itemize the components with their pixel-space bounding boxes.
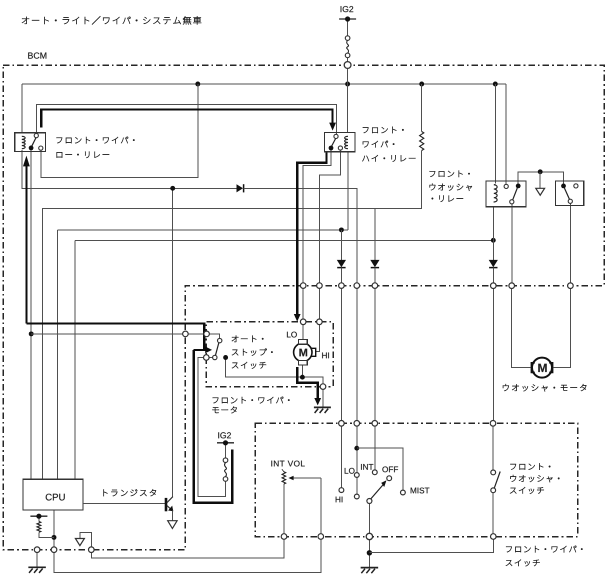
connector motor-unit t1	[300, 319, 306, 325]
front wiper motor unit enclosure (dash-dot box)	[206, 322, 333, 387]
high relay top pin	[334, 134, 338, 138]
wire washer out to motor	[512, 288, 531, 367]
label INT VOL	[271, 461, 304, 467]
connector BCM g3	[89, 547, 95, 553]
wire CPU line3 drop	[74, 240, 76, 479]
ground G1 (BCM case)	[28, 566, 45, 568]
wire high coil drop	[347, 152, 349, 230]
out-arrow2 (open, down)	[75, 539, 84, 546]
connector BCM b2	[317, 283, 323, 289]
diode D3 (washer line)	[489, 260, 498, 267]
label washer motor	[503, 384, 586, 391]
junction dot below CPU	[52, 535, 57, 540]
label high relay l1	[363, 127, 404, 133]
connector BCM g1	[34, 547, 40, 553]
wire IG2b to auto-stop loop	[198, 358, 225, 497]
wire relay-tops y=104.4	[36, 104, 336, 134]
washer relay out contact	[510, 200, 514, 204]
wiper switch OFF contact	[387, 476, 392, 481]
thick path relay-drive (to high relay)	[41, 109, 332, 127]
label washer relay l2	[430, 184, 472, 191]
label sw MIST	[411, 488, 430, 494]
label IG2 bottom	[218, 432, 231, 438]
junction dot bus-2	[345, 82, 350, 87]
IG2 bottom terminal	[217, 442, 234, 444]
label low relay l2	[57, 152, 109, 158]
wire D3 to BCM connector	[492, 268, 494, 283]
aux contact box	[556, 181, 584, 206]
junction dot MIST branch	[354, 446, 359, 451]
CPU box	[23, 479, 83, 510]
IG2 top terminal	[339, 18, 356, 20]
wire washer sw out bottom	[511, 204, 513, 283]
label BCM	[28, 52, 46, 58]
washer relay pin	[504, 184, 508, 188]
wire fuse2 top lead	[225, 445, 227, 458]
M2 right tab	[549, 363, 552, 373]
label IG2 top	[341, 6, 354, 12]
label washer switch l2	[510, 475, 559, 482]
wire CPU bottom to ground bus	[53, 510, 55, 547]
low relay NO contact	[39, 146, 43, 150]
wire BCM case gnd	[36, 552, 38, 567]
wire IG2 bus y=84	[22, 83, 506, 85]
junction dot bus-1	[195, 82, 200, 87]
washer motor M2 body	[532, 358, 552, 378]
hook wire out-arrow2	[80, 532, 91, 547]
wire motor HI inside unit	[316, 324, 320, 351]
wire diode to corner	[244, 188, 357, 283]
wire pot bottom	[283, 484, 285, 534]
junction dot link	[538, 169, 543, 174]
label wiper motor l1	[213, 397, 290, 404]
pot wiper arm	[294, 477, 321, 479]
aux out contact	[568, 199, 572, 203]
wire transistor collector	[172, 188, 174, 497]
M1 letter	[299, 349, 307, 357]
wire washer sw bottom	[492, 493, 494, 534]
wire HI contact	[340, 426, 342, 488]
label high relay l2	[363, 141, 394, 148]
connector BCM b5	[372, 283, 378, 289]
connector swbox t3	[372, 421, 378, 427]
connector swbox t2	[354, 421, 360, 427]
washer switch blade	[494, 472, 500, 489]
aux NO pin	[574, 184, 578, 188]
wire auto-stop common to motor-minus	[226, 358, 323, 385]
wiper switch LO upper contact	[354, 473, 359, 478]
junction dot bus-3	[419, 82, 424, 87]
wire HI line down	[340, 230, 342, 260]
fuse F1 top circle	[345, 36, 350, 41]
wire washer coil to sw box	[492, 288, 494, 420]
wire INT-line to switch	[374, 209, 376, 260]
wire INT line y=208.6	[42, 209, 375, 480]
terminal below CPU	[30, 515, 47, 517]
high relay coil	[345, 136, 348, 148]
thick U to IG2 fuse	[194, 350, 233, 503]
connector motor-unit t2	[317, 319, 323, 325]
aux blade	[564, 188, 569, 199]
connector BCM b7	[509, 283, 515, 289]
wire auto-stop contact link	[209, 334, 219, 338]
wire IG2 top lead	[347, 19, 349, 36]
label washer switch l3	[510, 487, 544, 494]
junction dot HI-line	[339, 227, 344, 232]
label LO	[287, 332, 297, 338]
wire MIST branch	[357, 448, 403, 490]
low relay blade	[32, 138, 36, 147]
wire high relay solid pin to motor LO	[303, 150, 331, 319]
connector motor-unit gnd	[320, 384, 326, 390]
connector swbox t1	[339, 421, 345, 427]
connector BCM g2	[51, 547, 57, 553]
label sw LO	[345, 468, 355, 474]
transistor emitter diag	[167, 506, 173, 511]
wire wiper arm down	[320, 478, 322, 534]
diode D4 (INT line)	[370, 260, 379, 267]
out-arrow (open, down)	[536, 188, 545, 195]
wire auto-stop feed y=333.9	[31, 333, 204, 335]
auto-stop blade	[216, 343, 219, 355]
label low relay l1	[57, 137, 135, 144]
M2 left tab	[531, 363, 534, 373]
wire CPU line2 y=229.9	[58, 229, 349, 231]
wire return up to aux box	[569, 204, 571, 283]
wiper switch MIST contact	[401, 490, 406, 495]
label washer switch l1	[510, 463, 550, 469]
connector swbox b2	[318, 534, 324, 540]
label washer relay l3	[432, 196, 463, 202]
relay box (front wiper low relay)	[15, 133, 46, 152]
wire pivot to gnd	[368, 539, 370, 567]
wire LO/MIST to sw box	[356, 288, 358, 420]
resistor R1 (INT pull-up)	[420, 132, 424, 151]
wire gnd link washer	[369, 539, 493, 552]
wire washer relay coil feed	[494, 84, 496, 184]
connector BCM b8	[568, 283, 574, 289]
aux common	[561, 184, 566, 189]
label auto-stop l1	[232, 336, 263, 342]
wire low-relay coil feed	[21, 84, 23, 134]
wire sw pivot down	[368, 504, 370, 534]
thick path high relay to motor	[297, 152, 326, 315]
washer switch bottom contact	[491, 488, 496, 493]
wire washer relay link y=171.8	[518, 172, 563, 184]
junction dot main gnd	[367, 550, 372, 555]
junction dot bus-4	[493, 82, 498, 87]
wiper switch LO lower contact	[354, 494, 359, 499]
ground G2 (switch common)	[361, 567, 379, 569]
title	[22, 16, 201, 24]
M1 top brush	[298, 340, 307, 345]
washer relay coil	[494, 185, 497, 202]
wire INT to sw box	[374, 288, 376, 420]
label high relay l3	[362, 155, 415, 161]
diode D2 (HI line)	[337, 260, 346, 267]
thick path motor to ground	[297, 367, 317, 399]
transistor Q1 base bar	[165, 498, 168, 511]
junction dot collector/LO line	[170, 186, 175, 191]
wire low coil to LO/MIST line y=188.3	[22, 150, 237, 188]
wiper switch blade	[371, 483, 385, 499]
connector motor-unit d	[204, 355, 210, 361]
label sw HI	[336, 497, 343, 503]
thick up-arrow into low relay	[25, 165, 27, 324]
label transistor	[103, 489, 155, 496]
potentiometer INT VOL	[282, 472, 286, 484]
wiper motor M1 body	[294, 343, 312, 361]
washer switch top contact	[491, 470, 496, 475]
wire e-d link	[209, 357, 213, 359]
auto-stop contact e	[213, 355, 217, 359]
wiper switch HI contact	[339, 488, 344, 493]
fuse F1 (IG2 top)	[347, 40, 349, 53]
wire motor ground lead	[322, 389, 324, 406]
washer relay common	[516, 184, 521, 189]
wire resistor drop x=421.7	[421, 84, 423, 132]
wire R2 to junction	[39, 532, 54, 537]
resistor R2 (below CPU)	[37, 522, 41, 533]
M1 right tab	[312, 348, 316, 356]
connector swbox b1	[281, 534, 287, 540]
label wiper switch l2	[506, 560, 540, 567]
wiper switch pivot	[367, 499, 372, 504]
transistor collector diag	[167, 497, 173, 503]
fuse F2 (IG2 bottom)	[225, 463, 227, 477]
wire washer sw top	[492, 426, 494, 470]
fuse F2 bottom circle	[223, 477, 228, 482]
emitter out-arrow (open)	[168, 521, 177, 529]
connector motor-unit left	[204, 331, 210, 337]
wire D2 to BCM connector	[340, 268, 342, 283]
wire HI to sw box	[340, 288, 342, 420]
wire IG2 to high relay coil	[347, 84, 349, 133]
connector swbox b3	[366, 533, 372, 539]
label washer relay l1	[430, 171, 470, 177]
low relay coil	[22, 136, 25, 148]
wire emitter down	[171, 511, 173, 521]
high relay NC contact	[329, 146, 334, 151]
junction dot auto-stop common	[223, 355, 228, 360]
wire motor minus	[301, 365, 303, 377]
wire washer relay switch feed	[505, 84, 507, 185]
connector BCM b3	[339, 283, 345, 289]
wire CPU line2 drop	[57, 230, 59, 479]
auto-stop contact c	[218, 338, 222, 342]
wire high relay open pin to motor HI	[319, 150, 340, 319]
wire CPU to transistor base	[83, 503, 165, 505]
label auto-stop l2	[232, 349, 273, 356]
connector IG2/BCM	[344, 62, 351, 69]
junction dot auto-stop line	[29, 331, 34, 336]
diode D1 (pointing right)	[237, 184, 244, 192]
label sw INT	[361, 464, 373, 470]
high relay blade	[332, 138, 336, 146]
low relay top pin	[34, 134, 38, 138]
wire LO contact (through)	[356, 426, 358, 494]
low relay NC contact	[29, 146, 34, 151]
label HI	[322, 353, 329, 359]
label auto-stop l3	[232, 362, 266, 369]
M2 letter	[538, 364, 546, 372]
wire INT contact	[374, 426, 376, 470]
label wiper motor l2	[213, 407, 237, 414]
wire D4 to BCM connector	[374, 268, 376, 283]
label CPU	[46, 494, 65, 501]
wire washer coil bottom	[492, 207, 494, 260]
connector swbox b4	[491, 534, 497, 540]
wire low relay solid pin to CPU	[30, 150, 32, 479]
fuse F1 bottom circle	[345, 53, 350, 58]
junction dot washer coil line	[491, 238, 496, 243]
label sw OFF	[382, 466, 398, 472]
wire stub to out-arrow	[539, 172, 541, 188]
wire sub-resistor lead	[38, 516, 40, 521]
wire fuse to BCM connector	[347, 58, 349, 84]
junction dot motor minus	[300, 375, 305, 380]
wiper switch INT contact	[372, 470, 377, 475]
relay box (front washer relay)	[486, 181, 526, 207]
connector swbox t4	[490, 421, 496, 427]
high relay NO contact	[338, 146, 342, 150]
thick right-arrow into auto-stop	[194, 349, 206, 351]
connector BCM b6	[491, 283, 497, 289]
motor ground G3	[314, 406, 331, 408]
wire washer motor return	[553, 288, 570, 367]
connector BCM b4	[354, 283, 360, 289]
connector BCM notch	[183, 331, 189, 337]
thick path low relay to auto-stop	[26, 323, 204, 350]
wire out2 down-right	[91, 539, 284, 558]
wire motor LO inside unit	[302, 324, 304, 339]
fuse F2 top circle	[223, 458, 228, 463]
wire junction drop x=197.8 to y=177.7	[41, 84, 198, 178]
M1 bottom brush	[298, 360, 307, 365]
washer relay blade	[513, 188, 518, 200]
wire resistor to INT line	[375, 151, 422, 209]
wire CPU line3 y=240.3	[75, 239, 493, 241]
wire gnd bus right	[54, 539, 321, 572]
combination wiper switch enclosure (dash-dot box)	[255, 423, 577, 536]
label wiper switch l1	[506, 546, 582, 553]
relay box (front wiper high relay)	[325, 132, 355, 151]
connector BCM b1	[300, 283, 306, 289]
